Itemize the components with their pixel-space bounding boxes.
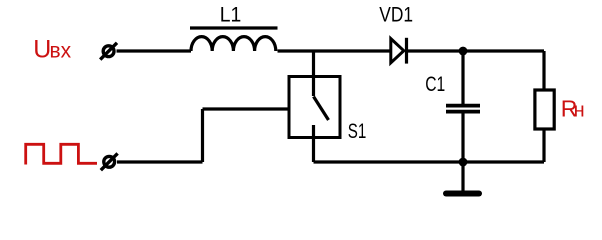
wire: ground stub xyxy=(461,162,464,191)
inductor L1 xyxy=(190,28,278,51)
terminal input top xyxy=(100,43,117,60)
junction dot: diode output node xyxy=(459,47,468,56)
wire: VD1 cathode to right corner xyxy=(407,49,545,52)
wire: control vertical xyxy=(201,109,204,162)
svg-text:Uвх: Uвх xyxy=(33,35,71,63)
wire: L1 to VD1 anode xyxy=(278,49,391,52)
terminal control xyxy=(101,153,118,170)
svg-text:Rн: Rн xyxy=(561,96,585,122)
square wave source xyxy=(26,144,97,164)
wire: control terminal to corner xyxy=(117,160,203,163)
wire top rail: terminal to L1 xyxy=(117,49,192,52)
svg-text:C1: C1 xyxy=(425,73,445,96)
wire: control horizontal to S1 xyxy=(203,107,290,110)
svg-text:VD1: VD1 xyxy=(379,3,413,26)
svg-text:L1: L1 xyxy=(220,3,242,26)
wire: right branch top xyxy=(542,51,545,90)
svg-text:S1: S1 xyxy=(348,120,367,143)
wire: right branch bottom xyxy=(542,129,545,162)
switch S1 contacts xyxy=(314,76,329,138)
switch S1 box xyxy=(289,77,340,138)
junction dot: bottom node xyxy=(459,158,468,167)
capacitor C1 xyxy=(446,106,480,112)
wire: capacitor branch top xyxy=(461,51,464,104)
resistor Rн xyxy=(535,90,554,129)
wire: capacitor branch bottom xyxy=(461,114,464,163)
diode VD1 xyxy=(391,38,407,64)
wire: bottom rail xyxy=(314,160,545,163)
ground xyxy=(446,191,479,197)
wire: switch bottom to bottom rail xyxy=(312,138,315,162)
wire: switch branch vertical xyxy=(312,51,315,76)
